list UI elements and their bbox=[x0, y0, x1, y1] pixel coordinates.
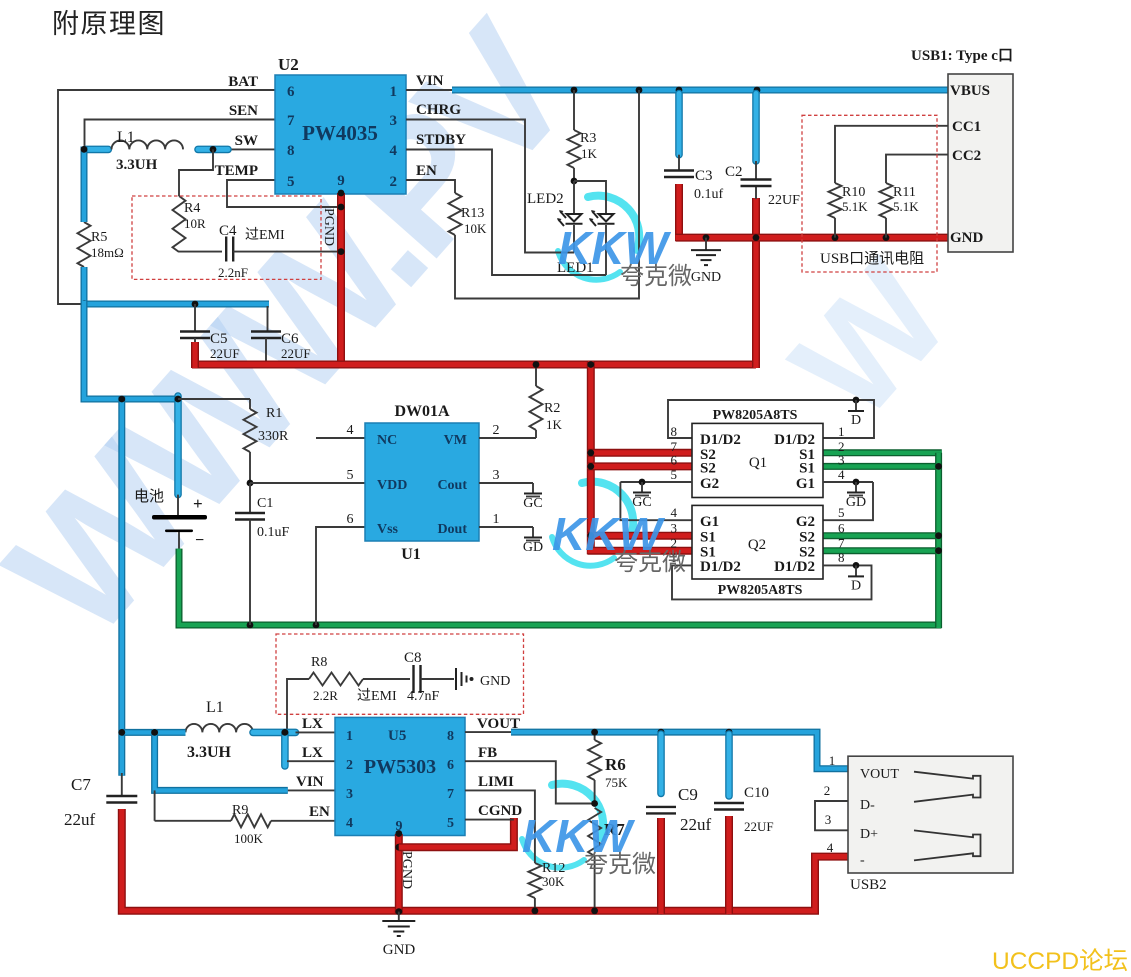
wire FB net bbox=[465, 761, 592, 803]
svg-text:R13: R13 bbox=[461, 206, 484, 221]
capacitor C7 bbox=[64, 773, 137, 829]
svg-text:22UF: 22UF bbox=[768, 193, 800, 208]
wire LED2 cathode bbox=[573, 225, 575, 253]
connector USB2 bbox=[848, 756, 1013, 893]
junction LED node bbox=[571, 178, 578, 185]
svg-text:PGND: PGND bbox=[321, 208, 336, 246]
wire C4 to PGND bbox=[233, 248, 344, 255]
svg-text:过EMI: 过EMI bbox=[245, 227, 285, 243]
svg-text:2.2R: 2.2R bbox=[313, 688, 338, 703]
wire R13 to VIN bbox=[455, 90, 639, 299]
svg-text:夸克微: 夸克微 bbox=[614, 549, 686, 576]
svg-text:L1: L1 bbox=[117, 129, 135, 146]
wire SW blue nubs bbox=[86, 146, 228, 154]
svg-text:R11: R11 bbox=[893, 185, 916, 200]
logo KKW 1 swoosh bbox=[558, 196, 639, 280]
svg-text:8: 8 bbox=[287, 143, 295, 159]
svg-text:+: + bbox=[193, 494, 203, 513]
resistor R6 bbox=[588, 732, 628, 804]
svg-text:L1: L1 bbox=[206, 699, 224, 716]
wire CGND red bbox=[399, 818, 514, 847]
svg-text:C4: C4 bbox=[219, 223, 237, 239]
EMI dashed box 2 bbox=[276, 634, 524, 714]
wire blue horizontal BAT bus bbox=[84, 301, 269, 308]
svg-text:C5: C5 bbox=[210, 331, 228, 347]
wire PGND red vertical bbox=[338, 190, 345, 368]
svg-text:Dout: Dout bbox=[437, 522, 467, 537]
ground GND (EMI2, rotated) bbox=[456, 668, 510, 690]
svg-text:VOUT: VOUT bbox=[860, 767, 899, 782]
svg-text:EN: EN bbox=[309, 804, 330, 820]
svg-text:S2: S2 bbox=[799, 530, 815, 546]
svg-text:C1: C1 bbox=[257, 496, 273, 511]
svg-text:BAT: BAT bbox=[228, 74, 258, 90]
svg-text:过EMI: 过EMI bbox=[357, 688, 397, 704]
wire SW net bbox=[228, 148, 275, 150]
svg-text:CC2: CC2 bbox=[952, 148, 981, 164]
svg-text:VM: VM bbox=[444, 433, 467, 448]
resistor R7 bbox=[588, 808, 625, 914]
svg-text:6: 6 bbox=[287, 84, 295, 100]
inductor L1 (bottom) bbox=[186, 699, 254, 761]
svg-text:U2: U2 bbox=[278, 55, 299, 74]
svg-text:R4: R4 bbox=[184, 201, 200, 216]
svg-text:R10: R10 bbox=[842, 185, 865, 200]
junction battery bus bbox=[118, 396, 181, 403]
label SW bbox=[235, 133, 258, 149]
wire LX pin2 stub bbox=[287, 760, 335, 762]
svg-text:100K: 100K bbox=[234, 831, 264, 846]
svg-text:1: 1 bbox=[493, 512, 500, 527]
junction gnd rail top bbox=[703, 234, 890, 241]
wire Dout net bbox=[479, 526, 533, 528]
svg-text:8: 8 bbox=[447, 729, 454, 744]
IC U2 PW4035 bbox=[275, 55, 406, 194]
junction BAT bus bbox=[81, 146, 199, 307]
svg-text:4: 4 bbox=[346, 816, 353, 831]
svg-text:22UF: 22UF bbox=[281, 346, 311, 361]
label CHRG bbox=[416, 102, 461, 118]
wire G2 net bbox=[620, 481, 692, 483]
label TEMP bbox=[215, 163, 258, 179]
IC U1 DW01A bbox=[347, 403, 500, 563]
svg-text:U1: U1 bbox=[401, 546, 421, 563]
wire blue battery column bbox=[81, 147, 88, 308]
junction green bus bbox=[935, 463, 942, 554]
svg-text:3: 3 bbox=[493, 468, 500, 483]
transistor Q2 PW8205A8TS bbox=[671, 505, 846, 579]
svg-text:R5: R5 bbox=[91, 230, 107, 245]
junction VDD node bbox=[247, 480, 254, 487]
svg-text:G2: G2 bbox=[796, 514, 815, 530]
svg-text:22uf: 22uf bbox=[680, 815, 712, 834]
resistor R3 bbox=[568, 90, 598, 181]
wire R1 top bbox=[178, 398, 250, 400]
svg-text:VIN: VIN bbox=[416, 73, 444, 89]
svg-text:CHRG: CHRG bbox=[416, 102, 461, 118]
wire red S1 row4 bbox=[588, 547, 692, 555]
svg-text:LIMI: LIMI bbox=[478, 774, 514, 790]
LED LED1 bbox=[557, 210, 615, 276]
junction bottom gnd rail bbox=[532, 907, 733, 914]
svg-text:4: 4 bbox=[838, 467, 845, 482]
svg-text:GND: GND bbox=[691, 270, 721, 285]
LED LED2 bbox=[527, 191, 583, 226]
svg-text:8: 8 bbox=[671, 424, 678, 439]
footer UCCPD论坛 bbox=[992, 947, 1128, 975]
wire Vss net bbox=[316, 527, 365, 625]
label FB bbox=[478, 745, 497, 761]
svg-text:G2: G2 bbox=[700, 476, 719, 492]
svg-text:22UF: 22UF bbox=[210, 346, 240, 361]
svg-text:Q2: Q2 bbox=[748, 537, 766, 553]
wire GC to Q2 G1 bbox=[620, 482, 692, 520]
svg-text:D: D bbox=[851, 413, 861, 428]
svg-text:1: 1 bbox=[829, 753, 836, 768]
wire red ground rail mid bbox=[192, 198, 756, 368]
label PW8205A8TS (Q2) bbox=[718, 583, 803, 598]
svg-text:30K: 30K bbox=[542, 874, 565, 889]
wire USB2 pin2-3 loop bbox=[815, 801, 848, 830]
resistor R4 bbox=[173, 196, 207, 252]
svg-text:UCCPD论坛: UCCPD论坛 bbox=[992, 947, 1128, 975]
label BAT bbox=[228, 74, 258, 90]
svg-text:PW4035: PW4035 bbox=[302, 121, 378, 145]
svg-text:3: 3 bbox=[825, 812, 832, 827]
svg-text:R1: R1 bbox=[266, 406, 282, 421]
svg-text:GC: GC bbox=[523, 496, 542, 511]
wire LED2 anode bbox=[573, 181, 575, 213]
svg-text:S1: S1 bbox=[700, 530, 716, 546]
svg-text:夸克微: 夸克微 bbox=[584, 851, 656, 878]
svg-text:GD: GD bbox=[846, 495, 866, 510]
capacitor C2 bbox=[725, 94, 800, 209]
label PGND (U5 pin9) bbox=[399, 851, 414, 889]
wire CHRG net bbox=[406, 120, 574, 253]
label LX (pin1) bbox=[302, 716, 323, 732]
capacitor C9 bbox=[646, 734, 712, 914]
wire red ground rail top bbox=[676, 234, 949, 242]
svg-text:USB2: USB2 bbox=[850, 877, 887, 893]
IC U5 PW5303 bbox=[335, 717, 465, 835]
svg-text:USB1: Type c口: USB1: Type c口 bbox=[911, 48, 1013, 64]
svg-text:GND: GND bbox=[480, 674, 510, 689]
svg-text:7: 7 bbox=[447, 787, 454, 802]
svg-text:PW5303: PW5303 bbox=[364, 756, 436, 778]
svg-text:3: 3 bbox=[671, 521, 678, 536]
svg-text:5.1K: 5.1K bbox=[842, 199, 868, 214]
svg-text:R8: R8 bbox=[311, 655, 327, 670]
svg-text:330R: 330R bbox=[258, 429, 289, 444]
logo KKW 3 swoosh bbox=[522, 784, 603, 868]
logo KKW 2 swoosh bbox=[552, 482, 633, 566]
svg-text:PW8205A8TS: PW8205A8TS bbox=[713, 408, 798, 423]
svg-text:5: 5 bbox=[287, 174, 295, 190]
label PGND (U2 pin9) bbox=[321, 208, 336, 246]
svg-text:D1/D2: D1/D2 bbox=[700, 559, 741, 575]
wire R4 tap bbox=[179, 149, 213, 196]
junction FB node bbox=[591, 800, 598, 807]
svg-text:6: 6 bbox=[347, 512, 354, 527]
svg-text:6: 6 bbox=[838, 521, 845, 536]
resistor R11 bbox=[880, 183, 920, 238]
svg-text:C3: C3 bbox=[695, 168, 713, 184]
svg-text:1: 1 bbox=[346, 729, 353, 744]
svg-text:5: 5 bbox=[447, 816, 454, 831]
svg-text:电池: 电池 bbox=[134, 488, 164, 505]
svg-text:R6: R6 bbox=[605, 755, 626, 774]
wire LED1 cathode bbox=[605, 225, 607, 275]
net flag GD (U1) bbox=[523, 527, 543, 555]
svg-text:FB: FB bbox=[478, 745, 497, 761]
wire NC stub bbox=[316, 437, 365, 439]
wire EN net bbox=[406, 180, 455, 193]
svg-text:10K: 10K bbox=[464, 221, 487, 236]
svg-text:C2: C2 bbox=[725, 164, 743, 180]
wire green S1 row2 bbox=[823, 463, 942, 470]
label LX (pin2) bbox=[302, 745, 323, 761]
label VOUT bbox=[477, 716, 520, 732]
svg-text:U5: U5 bbox=[388, 728, 406, 744]
label LIMI bbox=[478, 774, 514, 790]
capacitor C5 bbox=[180, 304, 240, 361]
inductor L1 (top) bbox=[112, 129, 184, 173]
junction SW node bbox=[81, 146, 217, 153]
svg-text:C8: C8 bbox=[404, 650, 422, 666]
wire PGND red (U5) bbox=[395, 830, 402, 914]
svg-text:4: 4 bbox=[347, 423, 354, 438]
svg-text:GND: GND bbox=[383, 942, 416, 958]
wire LIMI net bbox=[465, 790, 535, 863]
capacitor C10 bbox=[714, 734, 774, 914]
junction VOUT rail bbox=[591, 729, 732, 736]
connector USB1 bbox=[911, 48, 1013, 252]
svg-text:TEMP: TEMP bbox=[215, 163, 258, 179]
resistor R5 bbox=[78, 222, 124, 267]
wire TEMP net bbox=[227, 180, 344, 210]
wire Cout net bbox=[479, 482, 533, 484]
resistor R13 bbox=[449, 193, 488, 236]
USB comm dashed box bbox=[802, 115, 937, 272]
svg-text:3.3UH: 3.3UH bbox=[116, 157, 158, 173]
svg-text:6: 6 bbox=[671, 453, 678, 468]
pin numbers USB2 bbox=[824, 753, 836, 855]
svg-text:VBUS: VBUS bbox=[950, 83, 990, 99]
junction VIN rail bbox=[571, 87, 761, 94]
wire green S1 row1 bbox=[823, 449, 942, 456]
svg-text:S2: S2 bbox=[700, 461, 716, 477]
wire VOUT blue rail bbox=[511, 732, 848, 769]
resistor R10 bbox=[829, 183, 869, 238]
wire VIN stub bbox=[406, 89, 452, 91]
logo KKW 1 text bbox=[558, 222, 692, 290]
svg-text:NC: NC bbox=[377, 433, 397, 448]
svg-text:LX: LX bbox=[302, 745, 323, 761]
svg-text:C7: C7 bbox=[71, 775, 91, 794]
wire red S1 row3 bbox=[588, 532, 692, 540]
wire red FET bus bbox=[587, 361, 595, 554]
wire EN branch bbox=[155, 790, 231, 820]
net flag GC (Q1) bbox=[632, 479, 651, 510]
svg-text:CGND: CGND bbox=[478, 803, 522, 819]
svg-text:2: 2 bbox=[824, 783, 831, 798]
resistor R9 bbox=[231, 803, 335, 846]
svg-text:−: − bbox=[195, 532, 204, 549]
svg-text:G1: G1 bbox=[700, 514, 719, 530]
wire STDBY net bbox=[406, 150, 606, 276]
svg-text:1: 1 bbox=[838, 424, 845, 439]
svg-text:5: 5 bbox=[347, 468, 354, 483]
wire CC2 net bbox=[886, 155, 948, 183]
resistor R1 bbox=[244, 399, 290, 483]
wire VM net bbox=[479, 437, 536, 439]
svg-text:0.1uF: 0.1uF bbox=[257, 525, 290, 540]
label SEN bbox=[229, 103, 258, 119]
svg-text:C9: C9 bbox=[678, 785, 698, 804]
svg-text:4: 4 bbox=[827, 840, 834, 855]
net flag GC (U1) bbox=[523, 483, 542, 511]
wire VIN pin3 stub bbox=[288, 789, 335, 791]
svg-text:4.7nF: 4.7nF bbox=[407, 689, 440, 704]
wire green S2 row4 bbox=[823, 547, 942, 554]
wire R4 to C4 bbox=[179, 251, 222, 253]
battery 电池 bbox=[134, 488, 207, 549]
svg-text:2: 2 bbox=[346, 758, 353, 773]
wire C7 red to gnd bbox=[122, 809, 848, 911]
svg-text:2: 2 bbox=[493, 423, 500, 438]
svg-text:Cout: Cout bbox=[437, 478, 467, 493]
wire red S2 row1 bbox=[588, 449, 692, 457]
capacitor C6 bbox=[251, 306, 311, 368]
svg-text:3: 3 bbox=[346, 787, 353, 802]
label EN (U2) bbox=[416, 163, 437, 179]
svg-text:75K: 75K bbox=[605, 775, 628, 790]
ground GND (bottom) bbox=[382, 908, 415, 958]
svg-text:-: - bbox=[860, 853, 865, 868]
wire VDD net bbox=[250, 482, 365, 484]
svg-text:夸克微: 夸克微 bbox=[620, 263, 692, 290]
svg-text:22uf: 22uf bbox=[64, 810, 96, 829]
svg-text:18mΩ: 18mΩ bbox=[91, 245, 124, 260]
wire R8 tap bbox=[287, 679, 309, 732]
wire red S2 row2 bbox=[588, 462, 692, 470]
logo KKW 2 text bbox=[552, 508, 686, 576]
label VIN bbox=[416, 73, 444, 89]
svg-text:Vss: Vss bbox=[377, 522, 399, 537]
svg-text:10R: 10R bbox=[184, 216, 206, 231]
svg-text:C10: C10 bbox=[744, 785, 769, 801]
svg-text:3.3UH: 3.3UH bbox=[187, 744, 232, 761]
capacitor C8 bbox=[357, 650, 440, 704]
svg-text:D1/D2: D1/D2 bbox=[774, 432, 815, 448]
svg-text:1K: 1K bbox=[581, 146, 598, 161]
wire CC1 net bbox=[835, 126, 948, 183]
svg-text:DW01A: DW01A bbox=[394, 403, 450, 420]
svg-text:VIN: VIN bbox=[296, 774, 324, 790]
net flag D (Q1) bbox=[848, 397, 864, 428]
wire green S2 row3 bbox=[823, 532, 942, 539]
svg-text:Q1: Q1 bbox=[749, 455, 767, 471]
title 附原理图 bbox=[52, 9, 166, 39]
junction green rail bbox=[247, 622, 320, 629]
svg-text:GD: GD bbox=[523, 540, 543, 555]
resistor R2 bbox=[530, 361, 563, 438]
net flag D (Q2) bbox=[848, 562, 864, 593]
svg-text:D: D bbox=[851, 578, 861, 593]
wire VOUT stub bbox=[465, 731, 511, 733]
junction LX node bbox=[118, 729, 288, 736]
svg-text:D1/D2: D1/D2 bbox=[700, 432, 741, 448]
svg-text:C6: C6 bbox=[281, 331, 299, 347]
svg-text:4: 4 bbox=[671, 505, 678, 520]
svg-text:5: 5 bbox=[838, 505, 845, 520]
capacitor C3 bbox=[664, 94, 724, 242]
wire blue VIN branch bbox=[151, 729, 288, 790]
logo KKW 3 text bbox=[522, 810, 656, 878]
svg-text:R9: R9 bbox=[232, 803, 248, 818]
svg-text:7: 7 bbox=[838, 536, 845, 551]
wire Q2 drain loop bbox=[672, 565, 872, 599]
EMI dashed box 1 bbox=[132, 196, 321, 279]
net flag GD (Q1) bbox=[846, 479, 866, 510]
capacitor C4 bbox=[218, 223, 285, 280]
svg-text:1K: 1K bbox=[546, 417, 563, 432]
svg-text:SEN: SEN bbox=[229, 103, 258, 119]
svg-text:2.2nF: 2.2nF bbox=[218, 265, 248, 280]
svg-text:GND: GND bbox=[950, 230, 984, 246]
transistor Q1 PW8205A8TS bbox=[671, 423, 846, 497]
svg-text:USB口通讯电阻: USB口通讯电阻 bbox=[820, 250, 924, 267]
svg-text:1: 1 bbox=[390, 84, 398, 100]
wire blue LX rail bbox=[122, 732, 296, 766]
svg-text:6: 6 bbox=[447, 758, 454, 773]
svg-text:22UF: 22UF bbox=[744, 819, 774, 834]
wire LED1 anode bbox=[574, 181, 606, 213]
wire C8 to gnd bbox=[421, 678, 455, 680]
svg-text:LX: LX bbox=[302, 716, 323, 732]
svg-text:G1: G1 bbox=[796, 476, 815, 492]
wire blue to battery bbox=[84, 301, 181, 776]
label PW8205A8TS (Q1) bbox=[713, 408, 798, 423]
svg-text:5: 5 bbox=[671, 467, 678, 482]
decorative watermark bbox=[0, 0, 980, 674]
svg-text:D+: D+ bbox=[860, 827, 878, 842]
svg-text:R2: R2 bbox=[544, 401, 560, 416]
junction red bus bbox=[587, 361, 594, 539]
svg-text:D-: D- bbox=[860, 798, 875, 813]
svg-text:5.1K: 5.1K bbox=[893, 199, 919, 214]
svg-text:0.1uf: 0.1uf bbox=[694, 187, 724, 202]
svg-text:S1: S1 bbox=[799, 461, 815, 477]
svg-text:VDD: VDD bbox=[377, 478, 407, 493]
svg-text:7: 7 bbox=[287, 113, 295, 129]
wire CGND stub bbox=[465, 819, 514, 821]
ground GND (top) bbox=[691, 238, 721, 285]
svg-text:2: 2 bbox=[390, 174, 398, 190]
wire GD to Q2 G2 bbox=[823, 482, 873, 520]
wire LX pin1 stub bbox=[296, 731, 336, 733]
svg-text:3: 3 bbox=[390, 113, 398, 129]
wire SEN net bbox=[85, 120, 276, 147]
label EN (U5) bbox=[309, 804, 330, 820]
svg-text:LED2: LED2 bbox=[527, 191, 564, 207]
svg-text:3: 3 bbox=[838, 453, 845, 468]
svg-text:PW8205A8TS: PW8205A8TS bbox=[718, 583, 803, 598]
label VIN (U5) bbox=[296, 774, 324, 790]
svg-text:8: 8 bbox=[838, 550, 845, 565]
svg-text:SW: SW bbox=[235, 133, 258, 149]
svg-text:STDBY: STDBY bbox=[416, 132, 466, 148]
